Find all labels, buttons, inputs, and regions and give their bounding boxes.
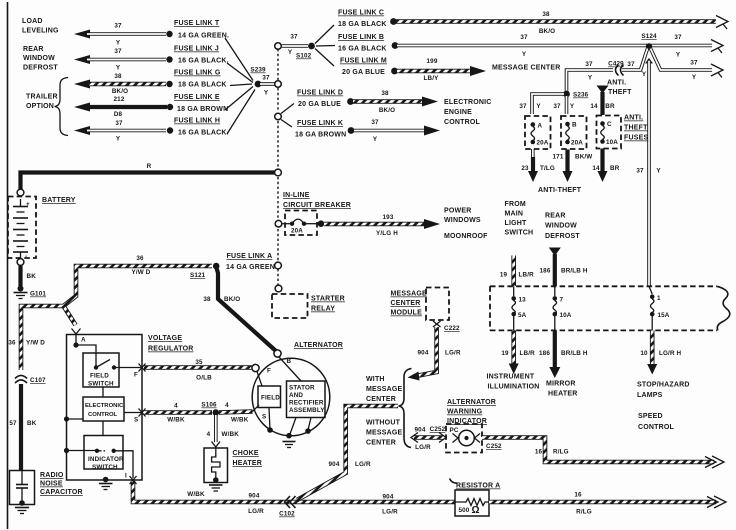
svg-text:W/BK: W/BK — [222, 431, 240, 438]
svg-text:W/BK: W/BK — [231, 417, 249, 424]
starter relay — [272, 294, 308, 318]
svg-text:37: 37 — [114, 48, 122, 55]
svg-text:193: 193 — [383, 214, 394, 221]
svg-text:S239: S239 — [250, 67, 266, 74]
svg-text:37: 37 — [636, 168, 644, 175]
svg-text:DEFROST: DEFROST — [23, 65, 58, 72]
svg-text:SWITCH: SWITCH — [92, 464, 118, 471]
svg-text:STARTER: STARTER — [311, 296, 345, 303]
fan lines to splice S239 — [225, 38, 255, 134]
svg-text:+: + — [26, 201, 30, 208]
splice S121 — [190, 263, 220, 279]
wire 36 Y/W D hatched — [8, 255, 212, 370]
in-line circuit breaker 20A — [275, 211, 318, 236]
battery — [8, 189, 36, 265]
svg-text:STOP/HAZARD: STOP/HAZARD — [637, 382, 690, 389]
wire 186 BR/LB H from rear window defrost — [540, 248, 588, 287]
svg-text:186: 186 — [539, 350, 550, 357]
svg-text:THEFT: THEFT — [608, 89, 632, 96]
svg-text:Y: Y — [116, 40, 121, 47]
wire 35 O/LB to alternator F — [144, 359, 252, 382]
svg-text:T/LG: T/LG — [540, 165, 555, 172]
left page border — [7, 2, 9, 529]
svg-text:14: 14 — [592, 165, 600, 172]
label FUSE LINK E 18 GA BROWN — [174, 94, 228, 113]
svg-text:W/BK: W/BK — [187, 491, 205, 498]
pin F — [134, 364, 146, 379]
svg-text:NOISE: NOISE — [40, 481, 63, 488]
label WITHOUT MESSAGE CENTER — [366, 420, 403, 447]
svg-text:FIELD: FIELD — [90, 373, 109, 380]
svg-text:904: 904 — [383, 494, 394, 501]
svg-text:C107: C107 — [30, 377, 46, 384]
instrument panel fuse block outline — [490, 286, 730, 330]
brace message center options — [399, 369, 412, 448]
svg-text:4: 4 — [174, 403, 178, 410]
label FUSE LINK G 18 GA BLACK — [174, 70, 227, 89]
svg-text:37: 37 — [553, 103, 561, 110]
svg-text:37: 37 — [262, 75, 270, 82]
svg-text:BK/O: BK/O — [224, 296, 240, 303]
ground G101 — [14, 286, 47, 299]
svg-text:MOONROOF: MOONROOF — [444, 233, 488, 240]
svg-text:S124: S124 — [641, 33, 657, 40]
svg-text:S: S — [262, 414, 266, 421]
svg-text:RELAY: RELAY — [311, 306, 335, 313]
svg-text:Y: Y — [373, 136, 378, 143]
svg-text:S102: S102 — [296, 53, 312, 60]
wire S124 right branch 37 Y — [651, 49, 724, 82]
svg-text:AND: AND — [289, 392, 303, 399]
svg-text:LG/R: LG/R — [445, 350, 461, 357]
wire BK battery ground — [21, 266, 37, 287]
alternator warning indicator bulb — [446, 424, 482, 453]
svg-text:7: 7 — [560, 297, 564, 304]
svg-text:O/LB: O/LB — [196, 375, 212, 382]
svg-text:MESSAGE: MESSAGE — [366, 430, 403, 437]
svg-text:FUSE LINK C: FUSE LINK C — [338, 10, 384, 17]
svg-text:FUSE LINK G: FUSE LINK G — [174, 70, 221, 77]
svg-text:Y: Y — [692, 74, 697, 81]
svg-text:CONTROL: CONTROL — [444, 119, 481, 126]
svg-text:S121: S121 — [190, 272, 206, 279]
svg-text:R/LG: R/LG — [553, 449, 569, 456]
svg-text:RADIO: RADIO — [40, 472, 64, 479]
svg-text:57: 57 — [9, 420, 17, 427]
svg-text:Y: Y — [656, 168, 661, 175]
svg-text:FUSE LINK A: FUSE LINK A — [227, 253, 273, 260]
svg-text:G101: G101 — [30, 291, 46, 298]
svg-text:C222: C222 — [444, 325, 460, 332]
wire 16 R/LG bottom run — [489, 492, 726, 516]
wire 23 T/LG anti-theft — [521, 149, 555, 182]
svg-text:ANTI-THEFT: ANTI-THEFT — [538, 187, 582, 194]
connector C429 — [608, 61, 635, 76]
svg-text:15A: 15A — [658, 312, 670, 319]
svg-text:ALTERNATOR: ALTERNATOR — [447, 399, 496, 406]
label MIRROR HEATER — [546, 381, 577, 398]
svg-text:37: 37 — [585, 61, 593, 68]
svg-text:16: 16 — [535, 449, 543, 456]
svg-text:13: 13 — [519, 297, 527, 304]
node fuse link A circle — [275, 262, 282, 269]
svg-text:D8: D8 — [114, 111, 123, 118]
svg-text:38: 38 — [203, 296, 211, 303]
dashed feed bus — [277, 49, 279, 285]
label LOAD LEVELING — [22, 18, 59, 35]
message center module box — [426, 288, 449, 321]
svg-text:LG/R: LG/R — [382, 509, 398, 516]
svg-text:37: 37 — [519, 103, 527, 110]
svg-text:10: 10 — [640, 350, 648, 357]
svg-text:Y: Y — [588, 75, 593, 82]
svg-text:BK/W: BK/W — [575, 154, 592, 161]
field switch — [83, 353, 142, 388]
svg-text:4: 4 — [207, 431, 211, 438]
svg-text:S236: S236 — [573, 92, 589, 99]
svg-text:14: 14 — [590, 103, 598, 110]
svg-text:WINDOW: WINDOW — [545, 223, 577, 230]
svg-text:REAR: REAR — [545, 213, 566, 220]
svg-text:Y: Y — [536, 103, 541, 110]
terminal F — [252, 364, 271, 386]
wire 38 BK/O to alternator B — [203, 268, 276, 352]
wire S124 to C429 — [585, 49, 647, 82]
wire R battery feed — [21, 163, 282, 192]
svg-text:FUSE LINK T: FUSE LINK T — [174, 20, 220, 27]
svg-text:37: 37 — [690, 60, 698, 67]
svg-text:MESSAGE: MESSAGE — [391, 291, 428, 298]
svg-text:ASSEMBLY: ASSEMBLY — [289, 407, 325, 414]
wire fuse link T (37 Y) — [74, 23, 173, 47]
label ALTERNATOR WARNING INDICATOR — [447, 399, 496, 425]
svg-text:23: 23 — [521, 165, 529, 172]
svg-text:F: F — [267, 368, 271, 375]
svg-text:500: 500 — [459, 507, 470, 514]
svg-text:LB/R: LB/R — [519, 272, 535, 279]
svg-text:37: 37 — [627, 61, 635, 68]
svg-text:A: A — [538, 123, 543, 130]
label FUSE LINK K 18 GA BROWN — [295, 120, 346, 139]
svg-text:199: 199 — [427, 58, 438, 65]
svg-text:BK: BK — [27, 420, 37, 427]
svg-text:18 GA BLACK: 18 GA BLACK — [178, 82, 227, 89]
svg-text:WITH: WITH — [366, 376, 385, 383]
indicator switch — [84, 436, 133, 479]
alternator internal grounds — [267, 408, 311, 439]
svg-text:20 GA BLUE: 20 GA BLUE — [342, 69, 385, 76]
wire 14 BR into fuse C — [590, 86, 615, 116]
svg-text:Y: Y — [264, 90, 269, 97]
label FUSE LINK H 16 GA BLACK — [174, 118, 229, 137]
wire 904 LG/R to indicator — [411, 426, 446, 451]
svg-text:A: A — [81, 337, 86, 344]
electronic control — [83, 387, 142, 436]
svg-text:904: 904 — [249, 493, 260, 500]
svg-text:B: B — [287, 358, 292, 365]
svg-text:ANTI.: ANTI. — [624, 115, 643, 122]
splice S102 — [308, 25, 335, 66]
svg-text:B: B — [572, 122, 577, 129]
splice S106 — [201, 402, 219, 416]
svg-text:1: 1 — [657, 295, 661, 302]
node starter relay circle — [275, 285, 282, 292]
svg-text:CHOKE: CHOKE — [233, 450, 259, 457]
resistor A 500 ohm — [450, 479, 501, 517]
svg-text:37: 37 — [115, 120, 123, 127]
label IN-LINE CIRCUIT BREAKER — [283, 192, 351, 209]
svg-text:FUSE LINK B: FUSE LINK B — [338, 34, 384, 41]
svg-text:BATTERY: BATTERY — [42, 197, 76, 204]
fuse 7 10A — [553, 286, 572, 330]
wire 19 LB/R from main light switch — [500, 256, 534, 287]
label ELECTRONIC ENGINE CONTROL — [444, 99, 492, 126]
wire fuse link G (38 BK/O hatched) — [74, 73, 173, 95]
svg-text:RECTIFIER: RECTIFIER — [289, 400, 324, 407]
label ANTI-THEFT FUSES — [624, 115, 648, 142]
svg-text:16 GA BLACK: 16 GA BLACK — [338, 46, 387, 53]
svg-text:20 GA BLUE: 20 GA BLUE — [298, 101, 341, 108]
svg-text:BK: BK — [27, 273, 37, 280]
svg-text:CONTROL: CONTROL — [638, 424, 675, 431]
wire 38 BK/O from fuse link C — [390, 11, 728, 35]
radio noise capacitor — [10, 471, 35, 514]
wire 19 LB/R to instrument illumination — [501, 330, 535, 374]
svg-text:F: F — [134, 372, 138, 379]
wire 171 BK/W anti-theft — [553, 150, 593, 183]
svg-text:FUSE LINK E: FUSE LINK E — [174, 94, 220, 101]
svg-text:19: 19 — [501, 350, 509, 357]
internal bus dots — [64, 416, 97, 453]
svg-text:36: 36 — [8, 340, 16, 347]
wire S124 down to fuse panel (37 Y) — [636, 59, 661, 286]
label VOLTAGE REGULATOR — [148, 335, 194, 353]
svg-text:FUSE LINK J: FUSE LINK J — [174, 46, 219, 53]
wire 37 Y from fuse link B — [392, 34, 723, 59]
wire fuse link H (D8 37 Y) — [74, 111, 173, 143]
wire branch to regulator A pin — [64, 306, 81, 334]
svg-text:R: R — [147, 163, 152, 170]
svg-text:C: C — [607, 121, 612, 128]
terminal B — [274, 350, 301, 381]
svg-text:MIRROR: MIRROR — [546, 381, 576, 388]
svg-text:SWITCH: SWITCH — [88, 381, 114, 388]
wire 38 BK/O to electronic engine control — [347, 90, 438, 114]
svg-text:Y: Y — [116, 136, 121, 143]
svg-text:LOAD: LOAD — [22, 18, 43, 25]
svg-text:Y/LG H: Y/LG H — [376, 230, 398, 237]
wire 193 Y/LG H to power windows — [318, 214, 440, 237]
svg-text:DEFROST: DEFROST — [545, 233, 580, 240]
wire 199 LB/Y to message center — [391, 58, 486, 82]
svg-text:SWITCH: SWITCH — [505, 230, 534, 237]
svg-text:16 GA BLACK.: 16 GA BLACK. — [178, 130, 229, 137]
label FUSE LINK C 18 GA BLACK — [338, 10, 387, 29]
svg-text:PC: PC — [450, 427, 459, 434]
fuse C 10A — [597, 116, 622, 149]
svg-text:36: 36 — [136, 255, 144, 262]
connector C102 — [279, 496, 295, 518]
svg-text:MODULE: MODULE — [391, 310, 423, 317]
svg-text:FUSE LINK H: FUSE LINK H — [174, 118, 220, 125]
svg-text:S106: S106 — [201, 402, 217, 409]
svg-text:RESISTOR A: RESISTOR A — [456, 483, 500, 490]
svg-text:WINDOW: WINDOW — [23, 55, 55, 62]
svg-text:Y/W D: Y/W D — [132, 269, 151, 276]
svg-text:16 GA BLACK.: 16 GA BLACK. — [178, 58, 229, 65]
svg-text:Y: Y — [676, 52, 681, 59]
svg-text:LIGHT: LIGHT — [505, 220, 528, 227]
svg-text:37: 37 — [290, 34, 298, 41]
fuse B 20A — [561, 116, 587, 149]
svg-text:INDICATOR: INDICATOR — [88, 456, 124, 463]
svg-text:19: 19 — [500, 272, 508, 279]
node fuse link D/K branch circle — [275, 104, 294, 128]
node S102 branch circle — [275, 34, 312, 60]
label STOP/HAZARD LAMPS — [637, 382, 690, 400]
svg-text:38: 38 — [542, 11, 550, 18]
label REAR WINDOW DEFROST — [23, 46, 58, 72]
svg-text:R/LG: R/LG — [576, 509, 592, 516]
svg-text:THEFT: THEFT — [624, 125, 648, 132]
svg-text:16: 16 — [574, 492, 582, 499]
svg-text:HEATER: HEATER — [548, 391, 577, 398]
svg-text:18 GA BLACK: 18 GA BLACK — [338, 21, 387, 28]
svg-text:20A: 20A — [571, 140, 583, 147]
wire 57 BK — [9, 384, 36, 470]
svg-text:LG/R: LG/R — [415, 444, 431, 451]
svg-text:14 GA GREEN: 14 GA GREEN — [226, 264, 275, 271]
svg-text:5A: 5A — [518, 312, 527, 319]
svg-text:37: 37 — [520, 34, 528, 41]
svg-text:SPEED: SPEED — [638, 413, 663, 420]
svg-text:4: 4 — [225, 402, 229, 409]
svg-text:904: 904 — [329, 461, 340, 468]
label FUSE LINK M 20 GA BLUE — [340, 58, 387, 77]
svg-text:HEATER: HEATER — [233, 460, 262, 467]
svg-text:BR/LB H: BR/LB H — [561, 350, 588, 357]
svg-text:LG/R: LG/R — [355, 461, 371, 468]
svg-text:C102: C102 — [279, 511, 295, 518]
svg-text:INSTRUMENT: INSTRUMENT — [487, 374, 535, 381]
svg-text:Y/W D: Y/W D — [26, 340, 45, 347]
svg-text:BR: BR — [605, 103, 615, 110]
svg-text:37: 37 — [674, 34, 682, 41]
wire fuse link J (37 Y) — [74, 48, 173, 72]
label FROM MAIN LIGHT SWITCH — [505, 201, 534, 237]
label REAR WINDOW DEFROST (panel) — [545, 213, 580, 241]
svg-text:C252: C252 — [430, 426, 446, 433]
svg-text:FUSE LINK D: FUSE LINK D — [297, 90, 343, 97]
svg-text:ELECTRONIC: ELECTRONIC — [444, 99, 492, 106]
svg-text:ELECTRONIC: ELECTRONIC — [85, 403, 124, 409]
svg-text:-: - — [25, 253, 27, 260]
svg-text:CIRCUIT BREAKER: CIRCUIT BREAKER — [283, 202, 351, 209]
label MESSAGE CENTER MODULE — [391, 291, 428, 317]
svg-text:BK/O: BK/O — [539, 28, 555, 35]
svg-text:BR: BR — [610, 165, 620, 172]
svg-text:MESSAGE CENTER: MESSAGE CENTER — [492, 65, 561, 72]
fuse 1 15A — [649, 286, 670, 330]
label FUSE LINK J 16 GA BLACK — [174, 46, 229, 65]
fuse 13 5A — [511, 286, 526, 330]
ground regulator — [99, 477, 113, 490]
wire 904 LG/R from message center module — [408, 327, 461, 381]
svg-text:CONTROL: CONTROL — [88, 412, 118, 418]
alternator body — [252, 358, 330, 436]
svg-text:Ω: Ω — [472, 505, 480, 516]
svg-text:212: 212 — [114, 96, 125, 103]
svg-text:CENTER: CENTER — [391, 300, 421, 307]
label FUSE LINK B 16 GA BLACK — [338, 34, 387, 53]
connector C107 — [15, 376, 46, 385]
svg-text:ANTI.: ANTI. — [607, 80, 626, 87]
svg-text:VOLTAGE: VOLTAGE — [148, 335, 182, 342]
svg-text:IN-LINE: IN-LINE — [283, 192, 310, 199]
svg-text:S: S — [134, 417, 138, 424]
svg-text:37: 37 — [114, 23, 122, 30]
fuse A 20A — [525, 116, 551, 149]
svg-text:BR/LB H: BR/LB H — [561, 268, 588, 275]
ground alternator — [283, 442, 296, 448]
label CHOKE HEATER — [233, 450, 262, 467]
wire 14 BR anti-theft — [592, 149, 619, 183]
svg-text:CENTER: CENTER — [366, 440, 396, 447]
wire S236 to fuse B — [553, 96, 574, 114]
svg-text:WARNING: WARNING — [447, 409, 483, 416]
wire S236 to fuse A — [519, 94, 564, 114]
svg-text:ALTERNATOR: ALTERNATOR — [294, 342, 343, 349]
svg-text:20A: 20A — [291, 228, 303, 235]
wire 904 riser to brace — [297, 406, 398, 500]
svg-text:FIELD: FIELD — [261, 395, 280, 402]
svg-text:38: 38 — [381, 90, 389, 97]
label POWER WINDOWS MOONROOF — [444, 208, 488, 241]
wire 4 W/BK to alternator S — [219, 402, 253, 424]
svg-text:ENGINE: ENGINE — [444, 109, 472, 116]
wire 904 LG/R bottom run — [133, 481, 455, 515]
svg-text:904: 904 — [418, 350, 429, 357]
svg-text:904: 904 — [415, 427, 426, 434]
svg-text:Y: Y — [288, 49, 293, 56]
svg-text:35: 35 — [195, 359, 203, 366]
svg-text:FUSE LINK M: FUSE LINK M — [340, 58, 387, 65]
svg-text:BK/O: BK/O — [379, 107, 395, 114]
svg-text:FROM: FROM — [505, 201, 526, 208]
svg-text:CAPACITOR: CAPACITOR — [40, 489, 83, 496]
svg-text:37: 37 — [371, 119, 379, 126]
labels 904 LG/R right of C102 — [382, 494, 398, 516]
svg-text:WITHOUT: WITHOUT — [366, 420, 401, 427]
pin I — [125, 473, 137, 485]
svg-text:FUSES: FUSES — [624, 135, 648, 142]
svg-text:POWER: POWER — [444, 208, 471, 215]
pin S — [134, 409, 146, 424]
label INSTRUMENT ILLUMINATION — [487, 374, 540, 391]
brace trailer option — [55, 78, 69, 136]
svg-text:REGULATOR: REGULATOR — [148, 346, 194, 353]
wire C429 to S236 — [567, 70, 614, 92]
choke heater — [204, 448, 228, 491]
svg-text:C252: C252 — [486, 443, 502, 450]
label SPEED CONTROL — [638, 413, 675, 431]
svg-text:171: 171 — [553, 154, 564, 161]
svg-text:LB/Y: LB/Y — [424, 75, 440, 82]
svg-text:OPTION: OPTION — [26, 103, 54, 110]
svg-text:W/BK: W/BK — [167, 417, 185, 424]
wire 10 LG/R H to stop hazard lamps — [640, 330, 681, 374]
svg-text:REAR: REAR — [23, 46, 44, 53]
